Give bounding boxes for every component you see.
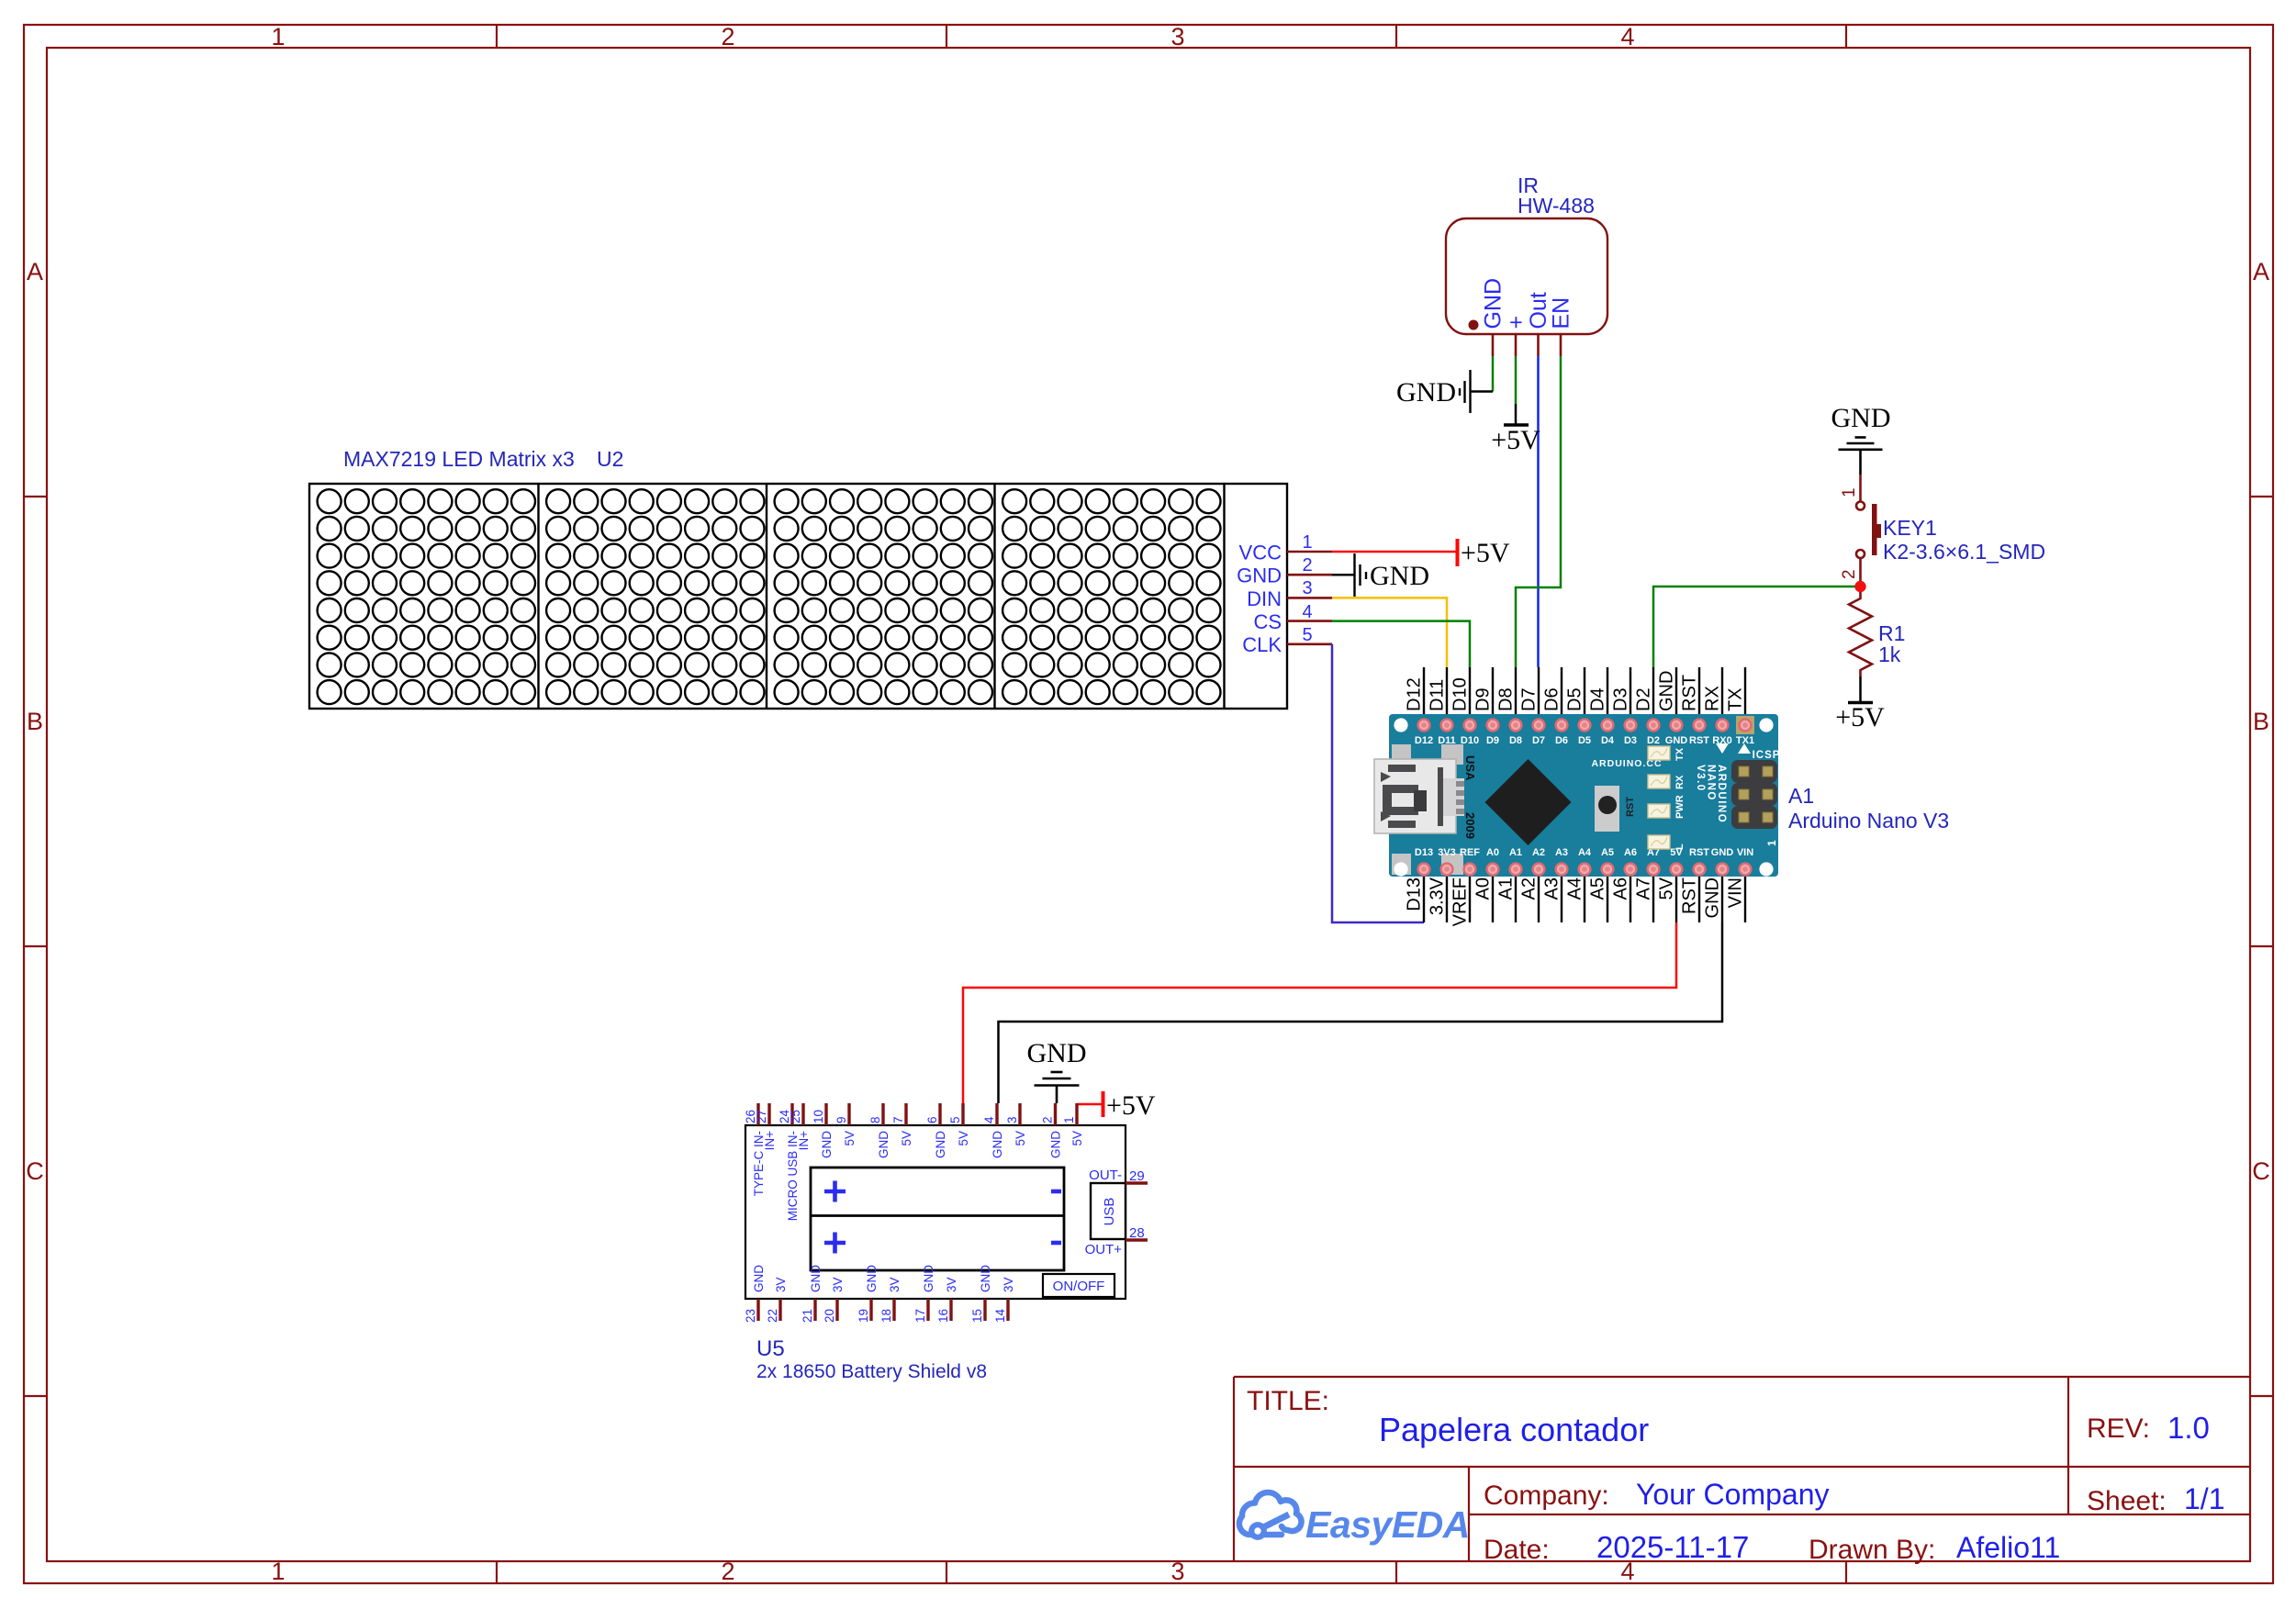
svg-text:A: A [27,258,43,285]
svg-text:A3: A3 [1555,847,1568,858]
svg-text:5V: 5V [957,1131,970,1146]
svg-text:1.0: 1.0 [2167,1411,2210,1445]
svg-text:A7: A7 [1634,877,1654,899]
svg-text:9: 9 [834,1116,848,1123]
svg-text:22: 22 [766,1309,779,1323]
svg-text:20: 20 [823,1309,836,1323]
svg-text:2x 18650 Battery Shield v8: 2x 18650 Battery Shield v8 [756,1361,987,1382]
svg-text:GND: GND [979,1265,992,1292]
svg-text:3: 3 [1005,1116,1019,1123]
svg-text:1/1: 1/1 [2184,1482,2224,1515]
svg-text:27: 27 [755,1110,768,1123]
svg-text:U5: U5 [756,1336,785,1361]
svg-text:D13: D13 [1415,847,1433,858]
svg-text:D2: D2 [1647,735,1660,746]
svg-text:B: B [27,708,43,735]
svg-text:RX: RX [1674,775,1686,789]
svg-text:A0: A0 [1486,847,1499,858]
svg-text:GND: GND [1370,561,1429,591]
svg-text:RST: RST [1680,877,1700,914]
svg-text:14: 14 [993,1308,1007,1323]
svg-text:5V: 5V [1014,1131,1027,1146]
svg-text:GND: GND [1481,278,1506,330]
svg-text:KEY1: KEY1 [1883,516,1937,540]
svg-text:OUT-: OUT- [1089,1168,1122,1183]
svg-text:REV:: REV: [2087,1413,2150,1444]
svg-text:C: C [26,1157,44,1185]
svg-text:18: 18 [879,1309,893,1323]
svg-text:1: 1 [271,1558,285,1585]
svg-text:5V: 5V [843,1131,857,1146]
svg-text:D9: D9 [1486,735,1499,746]
svg-text:Papelera contador: Papelera contador [1379,1411,1649,1448]
svg-text:D11: D11 [1428,679,1448,711]
svg-text:5: 5 [948,1116,962,1123]
svg-text:A0: A0 [1473,877,1494,899]
svg-text:3V3: 3V3 [1438,847,1456,858]
svg-text:GND: GND [1049,1131,1063,1158]
svg-text:GND: GND [877,1131,890,1158]
svg-text:TX: TX [1674,747,1686,761]
svg-text:PWR: PWR [1674,795,1686,819]
svg-text:D6: D6 [1555,735,1568,746]
svg-text:10: 10 [812,1110,825,1123]
svg-text:L: L [1674,844,1686,850]
svg-text:RST: RST [1625,797,1636,817]
svg-text:OUT+: OUT+ [1085,1242,1123,1257]
svg-text:2: 2 [721,1558,734,1585]
svg-text:C: C [2252,1157,2270,1185]
svg-text:A5: A5 [1601,847,1614,858]
svg-text:D10: D10 [1461,735,1479,746]
svg-text:A1: A1 [1788,784,1814,808]
svg-text:3V: 3V [888,1277,902,1292]
svg-text:CLK: CLK [1242,633,1282,656]
svg-text:U2: U2 [597,447,623,471]
svg-text:1: 1 [1302,532,1312,553]
svg-text:D4: D4 [1601,735,1615,746]
svg-text:D7: D7 [1519,687,1540,711]
svg-text:GND: GND [1665,735,1688,746]
svg-text:B: B [2253,708,2269,735]
svg-text:D2: D2 [1634,687,1654,711]
svg-text:A2: A2 [1532,847,1545,858]
svg-text:CS: CS [1253,610,1282,633]
svg-text:3: 3 [1170,23,1184,50]
svg-text:GND: GND [1711,847,1734,858]
svg-text:Your Company: Your Company [1636,1478,1830,1511]
svg-text:D11: D11 [1438,735,1456,746]
svg-text:3: 3 [1170,1558,1184,1585]
svg-text:Company:: Company: [1484,1481,1609,1511]
svg-text:ICSP: ICSP [1753,750,1781,761]
svg-text:3: 3 [1302,578,1312,598]
svg-text:RST: RST [1680,675,1700,711]
svg-text:16: 16 [936,1309,950,1323]
svg-text:EN: EN [1549,297,1574,330]
svg-text:D7: D7 [1532,735,1545,746]
svg-text:D5: D5 [1565,687,1585,711]
svg-text:4: 4 [982,1116,996,1123]
svg-text:GND: GND [991,1131,1004,1158]
svg-text:3V: 3V [774,1277,788,1292]
svg-text:GND: GND [1703,877,1723,918]
svg-text:2: 2 [1302,555,1312,575]
svg-text:IN+: IN+ [763,1131,777,1151]
svg-text:15: 15 [970,1309,984,1323]
svg-text:D5: D5 [1578,735,1591,746]
svg-text:GND: GND [1831,403,1891,433]
svg-text:29: 29 [1129,1168,1145,1184]
svg-text:17: 17 [913,1309,927,1323]
svg-text:K2-3.6×6.1_SMD: K2-3.6×6.1_SMD [1883,540,2045,564]
svg-text:D12: D12 [1415,735,1433,746]
svg-text:A3: A3 [1542,877,1562,899]
svg-text:GND: GND [934,1131,947,1158]
svg-text:MAX7219 LED Matrix x3: MAX7219 LED Matrix x3 [343,447,575,471]
svg-text:4: 4 [1302,602,1312,622]
svg-text:D8: D8 [1509,735,1522,746]
svg-text:Afelio11: Afelio11 [1956,1531,2060,1564]
svg-text:Drawn By:: Drawn By: [1809,1535,1935,1565]
svg-text:DIN: DIN [1247,587,1282,610]
svg-text:3.3V: 3.3V [1428,877,1448,915]
svg-text:GND: GND [1657,671,1677,711]
svg-text:A2: A2 [1519,877,1540,899]
svg-text:Date:: Date: [1484,1535,1550,1565]
svg-text:GND: GND [752,1265,766,1292]
svg-text:2: 2 [1041,1116,1055,1123]
svg-text:GND: GND [820,1131,834,1158]
svg-text:TX1: TX1 [1736,735,1754,746]
svg-text:28: 28 [1129,1225,1145,1241]
svg-text:VREF: VREF [1450,877,1471,926]
svg-text:2: 2 [1840,569,1859,579]
svg-text:1: 1 [1062,1116,1076,1123]
svg-text:21: 21 [801,1309,814,1323]
svg-text:D13: D13 [1405,877,1425,911]
svg-text:VCC: VCC [1239,541,1282,564]
svg-text:2025-11-17: 2025-11-17 [1596,1530,1749,1564]
svg-text:GND: GND [922,1265,935,1292]
svg-text:5V: 5V [1657,877,1677,899]
svg-text:GND: GND [809,1265,823,1292]
svg-text:A5: A5 [1588,877,1608,899]
svg-text:EasyEDA: EasyEDA [1305,1503,1470,1546]
svg-text:5V: 5V [1070,1131,1084,1146]
svg-text:GND: GND [1027,1038,1087,1068]
svg-text:A6: A6 [1611,877,1631,899]
svg-text:5: 5 [1302,625,1312,645]
svg-text:VIN: VIN [1726,877,1746,908]
svg-text:D3: D3 [1624,735,1637,746]
svg-text:RX: RX [1703,686,1723,711]
svg-text:7: 7 [891,1116,905,1123]
svg-text:25: 25 [789,1110,802,1123]
svg-text:1: 1 [1840,487,1859,497]
svg-text:D9: D9 [1473,687,1494,711]
svg-text:Sheet:: Sheet: [2087,1486,2167,1516]
svg-text:D6: D6 [1542,687,1562,711]
svg-text:D8: D8 [1496,687,1517,711]
svg-text:A6: A6 [1624,847,1637,858]
svg-text:Arduino Nano V3: Arduino Nano V3 [1788,809,1949,832]
svg-text:RST: RST [1689,847,1709,858]
svg-text:TITLE:: TITLE: [1247,1386,1329,1416]
svg-text:TX: TX [1726,687,1746,711]
svg-text:A: A [2253,258,2269,285]
svg-text:8: 8 [868,1116,882,1123]
svg-text:A4: A4 [1578,847,1592,858]
svg-text:+5V: +5V [1491,425,1540,455]
svg-text:3V: 3V [945,1277,958,1292]
svg-text:GND: GND [865,1265,879,1292]
svg-text:23: 23 [744,1309,757,1323]
svg-text:3V: 3V [831,1277,845,1292]
svg-text:REF: REF [1460,847,1480,858]
svg-text:ON/OFF: ON/OFF [1053,1279,1105,1294]
svg-text:USA: USA [1463,755,1477,781]
svg-text:4: 4 [1620,23,1634,50]
svg-text:D10: D10 [1450,677,1471,711]
svg-text:IN+: IN+ [797,1131,811,1151]
svg-text:2009: 2009 [1463,812,1477,839]
svg-text:1: 1 [271,23,285,50]
svg-text:3V: 3V [1002,1277,1015,1292]
svg-text:USB: USB [1102,1198,1117,1226]
svg-text:2: 2 [721,23,734,50]
svg-text:VIN: VIN [1737,847,1753,858]
svg-text:+5V: +5V [1461,538,1510,568]
svg-text:HW-488: HW-488 [1518,194,1595,218]
svg-text:D3: D3 [1611,687,1631,711]
svg-text:GND: GND [1396,377,1456,408]
svg-text:D12: D12 [1405,677,1425,711]
svg-text:1k: 1k [1878,642,1901,666]
svg-text:D4: D4 [1588,687,1608,711]
svg-text:A1: A1 [1509,847,1522,858]
svg-text:A1: A1 [1496,877,1517,899]
svg-text:1: 1 [1765,840,1778,846]
svg-text:19: 19 [857,1309,870,1323]
svg-text:6: 6 [925,1116,939,1123]
svg-text:+5V: +5V [1835,702,1885,732]
svg-text:5V: 5V [900,1131,913,1146]
svg-text:RST: RST [1689,735,1709,746]
svg-text:+5V: +5V [1106,1090,1156,1121]
svg-text:A4: A4 [1565,877,1585,899]
svg-text:GND: GND [1237,564,1282,587]
